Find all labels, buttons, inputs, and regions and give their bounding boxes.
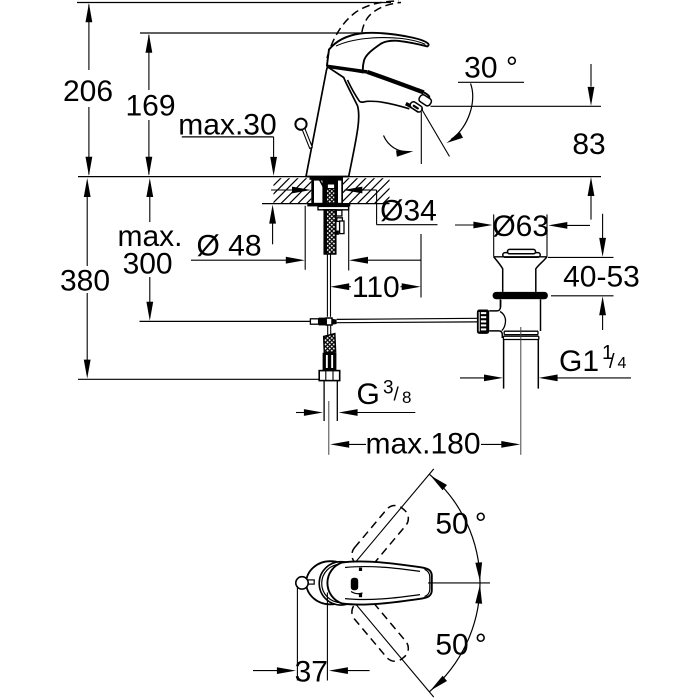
waste knurled nut <box>477 310 489 334</box>
50deg leg upper <box>354 469 434 564</box>
svg-text:206: 206 <box>63 75 113 108</box>
svg-text:380: 380 <box>60 265 110 298</box>
waste bell <box>494 257 547 292</box>
deck bottom line <box>262 203 390 205</box>
dashed raised lever position <box>327 1 401 58</box>
collar and spout top edge <box>328 66 424 92</box>
dimension diameter 34 <box>271 187 438 228</box>
label 30 degrees <box>458 52 524 85</box>
G38 hex nut <box>319 371 340 381</box>
dimension 380 <box>60 178 110 379</box>
lever top accent <box>336 38 426 46</box>
svg-text:/: / <box>394 385 400 406</box>
lower hose braid <box>324 334 336 353</box>
plan cartridge rings <box>319 562 362 605</box>
flex hose braid <box>324 210 336 254</box>
arc 50 lower <box>429 583 482 692</box>
waste lift button <box>503 249 540 257</box>
G38 connection tube <box>324 381 337 421</box>
plan lever details <box>351 568 363 598</box>
dimension 83 <box>572 64 605 220</box>
faucet body <box>306 67 359 177</box>
plan lever <box>327 561 431 604</box>
stream vertical line <box>420 112 422 164</box>
waste ext lines <box>494 214 547 256</box>
spout outlet ref line <box>431 105 602 107</box>
dashed lever plus50 <box>347 501 412 572</box>
ref line 206 top <box>77 2 391 4</box>
dimension 40-53 <box>548 214 640 330</box>
dimension max.300 <box>117 178 182 321</box>
arc stream swivel <box>384 136 414 157</box>
thread G1 1/4 <box>460 342 631 381</box>
svg-text:/: / <box>609 351 615 373</box>
svg-text:110: 110 <box>352 271 400 304</box>
escutcheon base band <box>310 177 344 180</box>
svg-text:37: 37 <box>295 656 328 689</box>
waste body rings <box>503 331 538 339</box>
plan centerline right <box>428 582 490 584</box>
svg-text:Ø63: Ø63 <box>492 210 549 243</box>
50deg leg lower <box>354 602 434 697</box>
threaded shank in deck hole <box>311 179 343 204</box>
svg-text:8: 8 <box>402 388 411 407</box>
horizontal rod right <box>337 318 478 322</box>
dimension 206 <box>63 3 113 176</box>
svg-text:Ø34: Ø34 <box>380 195 437 228</box>
stream inclined line <box>421 109 449 157</box>
svg-text:30 °: 30 ° <box>464 52 518 85</box>
pull-rod coupling <box>310 318 336 326</box>
deck top line <box>78 176 601 178</box>
svg-text:40-53: 40-53 <box>563 261 640 294</box>
svg-text:50 °: 50 ° <box>435 629 486 662</box>
rod top tick <box>330 177 332 183</box>
label 50 upper <box>435 508 486 541</box>
waste side inlet <box>489 300 505 338</box>
hidden lever dashes <box>332 39 364 61</box>
svg-text:169: 169 <box>125 90 175 123</box>
plan body <box>306 561 354 604</box>
svg-text:4: 4 <box>618 355 627 372</box>
svg-text:3: 3 <box>383 378 394 399</box>
arc 50 upper <box>429 474 482 583</box>
label 50 lower <box>435 629 486 662</box>
dimension diameter 63 <box>455 210 590 243</box>
svg-text:83: 83 <box>572 128 605 161</box>
dimension diameter 48 <box>191 206 421 271</box>
rod below coupling <box>328 325 331 335</box>
svg-text:Ø 48: Ø 48 <box>196 230 261 263</box>
dimension 110 <box>330 234 421 304</box>
dashed lever minus50 <box>347 595 412 666</box>
pop-up rod guide <box>336 210 344 235</box>
lever handle <box>327 33 429 73</box>
plan lever inner lines <box>345 567 430 600</box>
waste gasket <box>493 292 548 299</box>
pop-up rod knob <box>295 119 312 149</box>
mounting nut <box>318 206 349 209</box>
pop-up rod below <box>327 254 330 317</box>
horizontal rod left <box>140 320 311 322</box>
svg-text:G1: G1 <box>559 345 599 378</box>
plan pop-up knob <box>296 577 314 589</box>
svg-text:max.180: max.180 <box>365 428 480 461</box>
waste body <box>500 299 540 331</box>
ref line 169 top <box>140 32 366 34</box>
svg-text:G: G <box>357 378 380 411</box>
arc 30 degrees <box>447 84 473 144</box>
waste centerline <box>520 327 522 455</box>
dimension max.30 deck thickness <box>178 108 277 244</box>
svg-text:50 °: 50 ° <box>435 508 486 541</box>
dimension 37 <box>253 586 370 689</box>
hose connector <box>323 353 337 371</box>
spout nose aerator <box>406 92 433 113</box>
deck hatch left <box>274 178 312 203</box>
svg-text:300: 300 <box>123 248 173 281</box>
dimension 169 <box>125 34 175 176</box>
thread G 3/8 <box>296 378 415 416</box>
hose centerline <box>328 401 330 455</box>
mounting flange <box>307 203 350 206</box>
deck hatch right <box>343 178 390 203</box>
dimension max.180 <box>330 428 520 461</box>
mounting depth bottom line <box>78 378 321 380</box>
waste tailpipe <box>504 340 539 389</box>
spout underside <box>348 80 410 109</box>
